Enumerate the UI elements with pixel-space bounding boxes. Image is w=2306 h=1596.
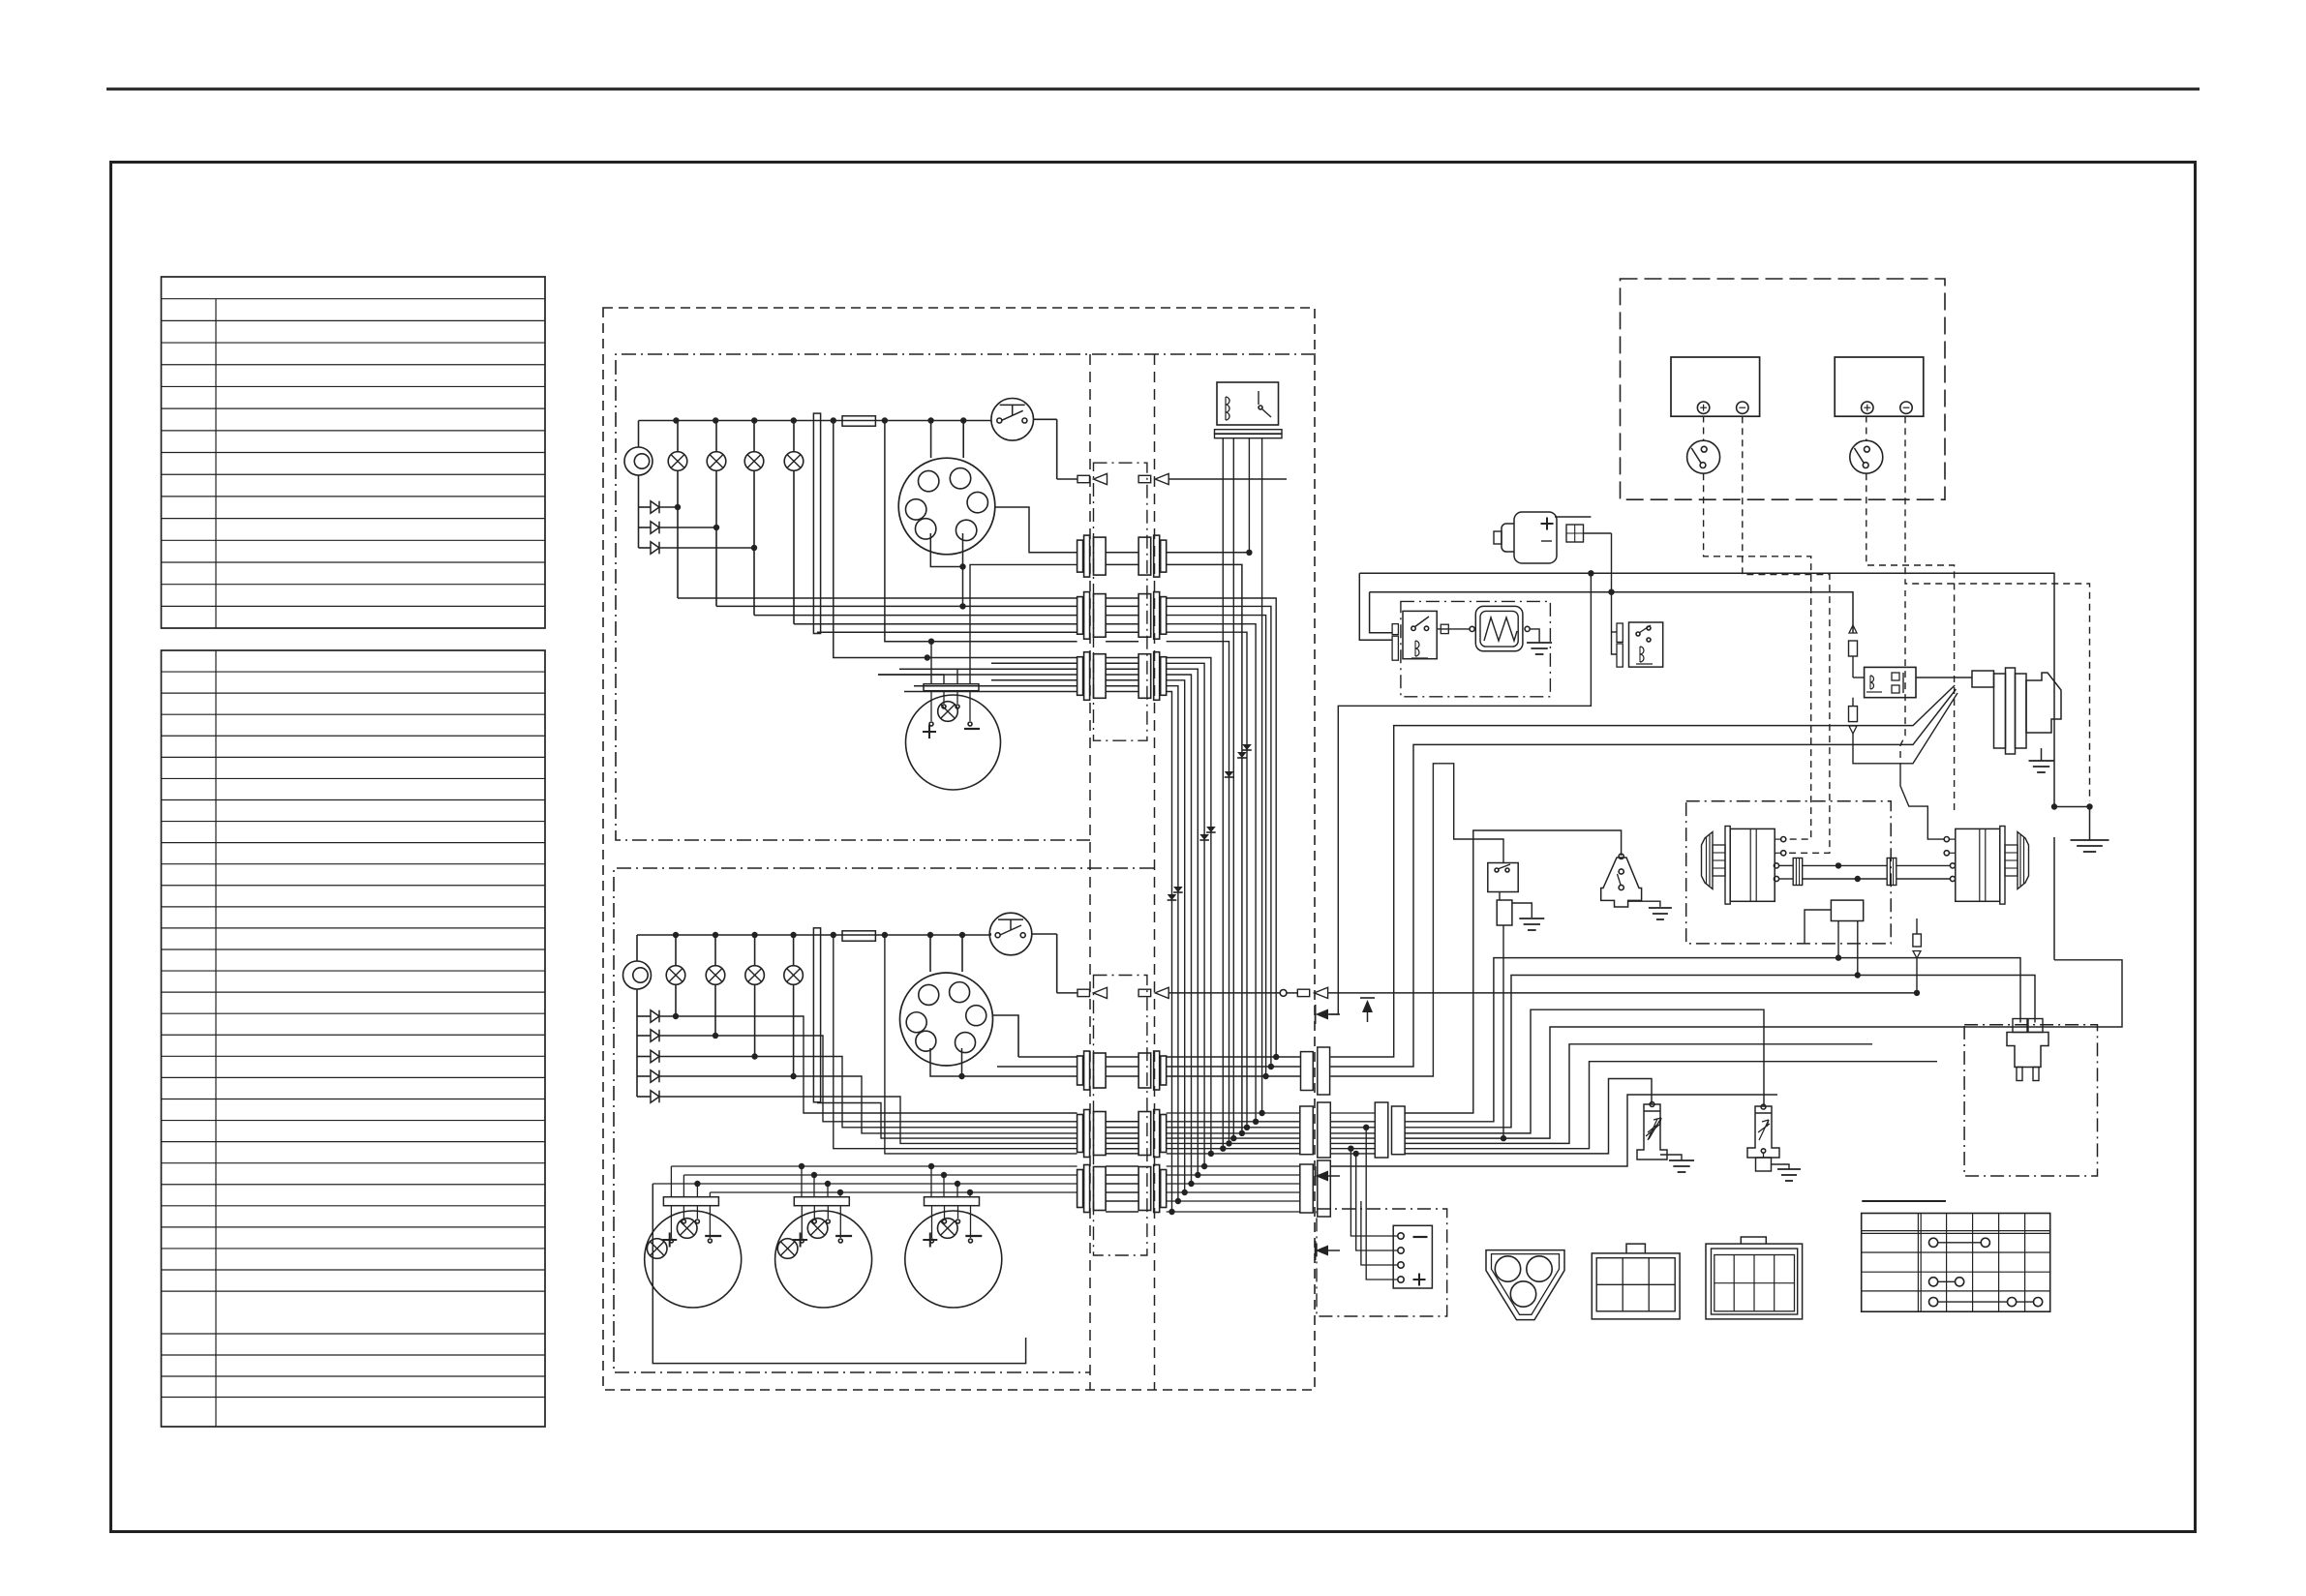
fuse F2 [842,931,875,941]
battery B2 [1835,357,1924,416]
wire sender-wires [930,691,932,721]
wire sender-wrap [652,1184,1025,1364]
lamp L1 pilot [624,447,652,475]
node regulator-box [1401,601,1551,696]
motor M1 starter [1994,674,2006,748]
node sender-thermo [1601,858,1642,907]
lamp Lc1 [647,1239,667,1259]
wire k2-r1 [1437,628,1470,630]
diode D1 [639,506,652,508]
ground G7 [1772,1164,1790,1169]
wire staircase [1405,830,1622,1113]
lamp L8 [666,966,685,985]
node connector-bar [925,1197,980,1206]
node gauge-cluster [898,458,995,555]
wire lamp-return [638,475,640,548]
resistor R2 sender [1637,1104,1667,1159]
wire [106,88,2200,91]
wire lamp-columns [677,470,679,598]
wire row6-cross [1167,1165,1300,1167]
node fusible-link-1 [1849,641,1858,656]
connector CN2 [1077,597,1083,635]
node legend-table-2 [162,650,546,1427]
node sender-gauge-top [906,695,1001,790]
node junction [791,417,797,423]
node splice-arrow-2 [1315,1166,1317,1186]
wire sender-bus-horizontals [671,1165,1077,1167]
lamp L2 [668,452,687,471]
fuse F1 [842,416,875,426]
wire gen-drops [1837,921,1839,958]
relay K1 [1217,382,1279,425]
diode D6 [637,1056,651,1058]
wire hour-leads [1555,516,1591,518]
node connector-bar [663,1197,718,1206]
node terminal-block [1393,1225,1432,1288]
node junction [673,417,679,423]
node splice-arrow-up [1362,1000,1373,1012]
wire relay-leads [1222,438,1224,1149]
node junction [713,417,718,423]
connector CN4b [1301,1052,1314,1091]
lamp L3 [707,452,726,471]
connector CN1 [1077,540,1083,572]
wire bundle-row2-left [678,597,1077,599]
ground G6 [1660,1155,1682,1160]
wire starter-diagonals [1330,685,1955,1057]
wire sender-wires [670,1206,672,1238]
node fusible-link-3 [1916,940,1918,944]
wire bundle-vertical [1167,692,1172,1213]
diode D8 [637,1096,651,1098]
node busbar-strip-2 [813,928,820,1102]
node instrument-box-lower [614,868,1154,1372]
wire bundle-row3-left [834,421,1077,658]
wire harness-arrow-bottom [1057,992,1077,994]
wire gauge-feeds [930,421,932,459]
node junction [831,417,836,423]
diode D5 [637,1035,651,1037]
wire top-bus [639,420,992,422]
node trailer-box [1964,1025,2097,1176]
connector CN-k3 [1617,623,1623,642]
wire bus1-left-drop [1359,573,1392,640]
wire sender-wires [801,1206,803,1238]
node instrument-box-upper [616,354,1316,840]
wire k3-leads [1612,533,1618,654]
generator GEN2 [2018,832,2029,889]
ground G5 [1628,901,1660,907]
wire gen2-bus [2053,837,2055,960]
wire row4-cross [1167,1056,1301,1058]
wire battery-drops [1704,473,1811,839]
node sender-unit-1 [645,1211,742,1308]
node coupling-2 [1887,858,1896,886]
connector CN-C 8pin [1706,1244,1803,1319]
diode D3 [639,547,652,549]
wire bundle-row4-left [1018,1056,1077,1058]
wire bulkhead-right [1154,354,1156,1390]
lamp L6 [938,702,958,722]
wire main-bus-2 [1370,592,1853,633]
switch S1 battery [1687,440,1720,473]
lamp L11 [784,966,804,985]
relay K2 [1403,611,1437,658]
wire solenoid-leads [1852,656,1854,667]
connector CN4 [1077,1056,1083,1085]
node sender-unit-3 [905,1211,1002,1308]
wire bundle-row5-left [676,1015,1077,1017]
node connector-column-lower [1094,976,1147,1256]
wire bottom-bus [637,934,991,936]
connector CN-k2 [1392,624,1398,635]
lamp L7 pilot [623,961,652,989]
diode D2 [639,527,652,528]
node harness-outer-box [603,308,1315,1390]
resistor R3 sender [1747,1106,1779,1158]
node pin-table [1862,1200,1946,1202]
connector CN6b [1300,1164,1314,1213]
node splice-arrow-1 [1315,1005,1317,1024]
node terminal-box [1317,1209,1447,1316]
node junction [882,417,888,423]
node connector-bar [794,1197,849,1206]
node connector-bar [924,684,979,691]
node junction [751,417,757,423]
lamp L10 [745,966,765,985]
connector CN-trailer [2013,1019,2027,1033]
node busbar-strip [813,413,820,633]
wire neutral-switch-feed [1330,764,1503,1076]
wire bus2-left-drop [1370,592,1393,633]
switch SW1 key [991,399,1034,441]
lamp Lb1 [677,1219,697,1239]
wire solenoid-starter [1916,677,1972,678]
switch S2 battery [1850,440,1883,473]
wire sender-wires [931,1206,933,1238]
lamp Lb3 [938,1219,958,1239]
wire row5-cross [1167,1112,1300,1114]
connector CN5 [1077,1115,1083,1153]
connector CN-B 6pin [1592,1253,1680,1319]
wire lamp-columns-2 [675,984,677,1016]
node gauge-cluster-2 [900,973,993,1066]
node coupling-1 [1793,858,1803,886]
lamp L5 [784,452,804,471]
wire harness-arrow-top [1057,478,1077,480]
node battery-box [1621,279,1946,499]
node connector-column-upper [1094,463,1147,740]
ground G1 [1530,629,1539,643]
connector CN-A 3pin [1486,1250,1564,1320]
switch SW2 key [989,913,1032,955]
relay K3 [1629,622,1663,667]
ground G2 starter [2041,748,2043,761]
connector CN5b [1300,1106,1314,1155]
switch SW3 neutral [1488,863,1518,892]
diode D7 [637,1075,651,1077]
node legend-table-1 [162,277,546,628]
node sender-unit-2 [775,1211,872,1308]
node frame [111,163,2196,1532]
connector CN3 [1077,657,1083,696]
lamp L9 [706,966,725,985]
relay K4 starter-solenoid [1865,667,1916,697]
node sender-hour [1514,512,1557,563]
wire main-bus-1 [1359,573,2054,806]
node splice-arrow-3 [1315,1241,1317,1260]
wire gen-shaft [1779,864,1794,866]
ground G3 main [2054,806,2090,808]
wire lamp-return-2 [636,989,638,1097]
lamp Lc2 [777,1239,798,1259]
connector CN5c [1375,1102,1388,1158]
lamp L4 [744,452,764,471]
ground G4 [1512,903,1532,918]
wire terminal-leads [1350,1149,1397,1236]
wire row1-right [1167,552,1250,554]
diode pack [1242,744,1252,750]
generator GEN1 [1702,832,1714,889]
diode D4 [637,1015,651,1017]
node fusible-link-2 [1849,707,1858,722]
wire bulkhead-left [1089,354,1091,1390]
node alternator-box [1686,801,1892,944]
connector CN-h [1566,525,1584,542]
connector CN6 [1077,1170,1083,1208]
lamp Lb2 [807,1219,828,1239]
wire gauge-feeds-2 [929,935,931,972]
battery B1 [1671,357,1760,416]
node shaft-block [1831,900,1863,920]
resistor R1 regulator [1475,606,1523,650]
wire gen2-up [1900,769,1944,839]
wire regulator-loop [1329,573,1591,1014]
